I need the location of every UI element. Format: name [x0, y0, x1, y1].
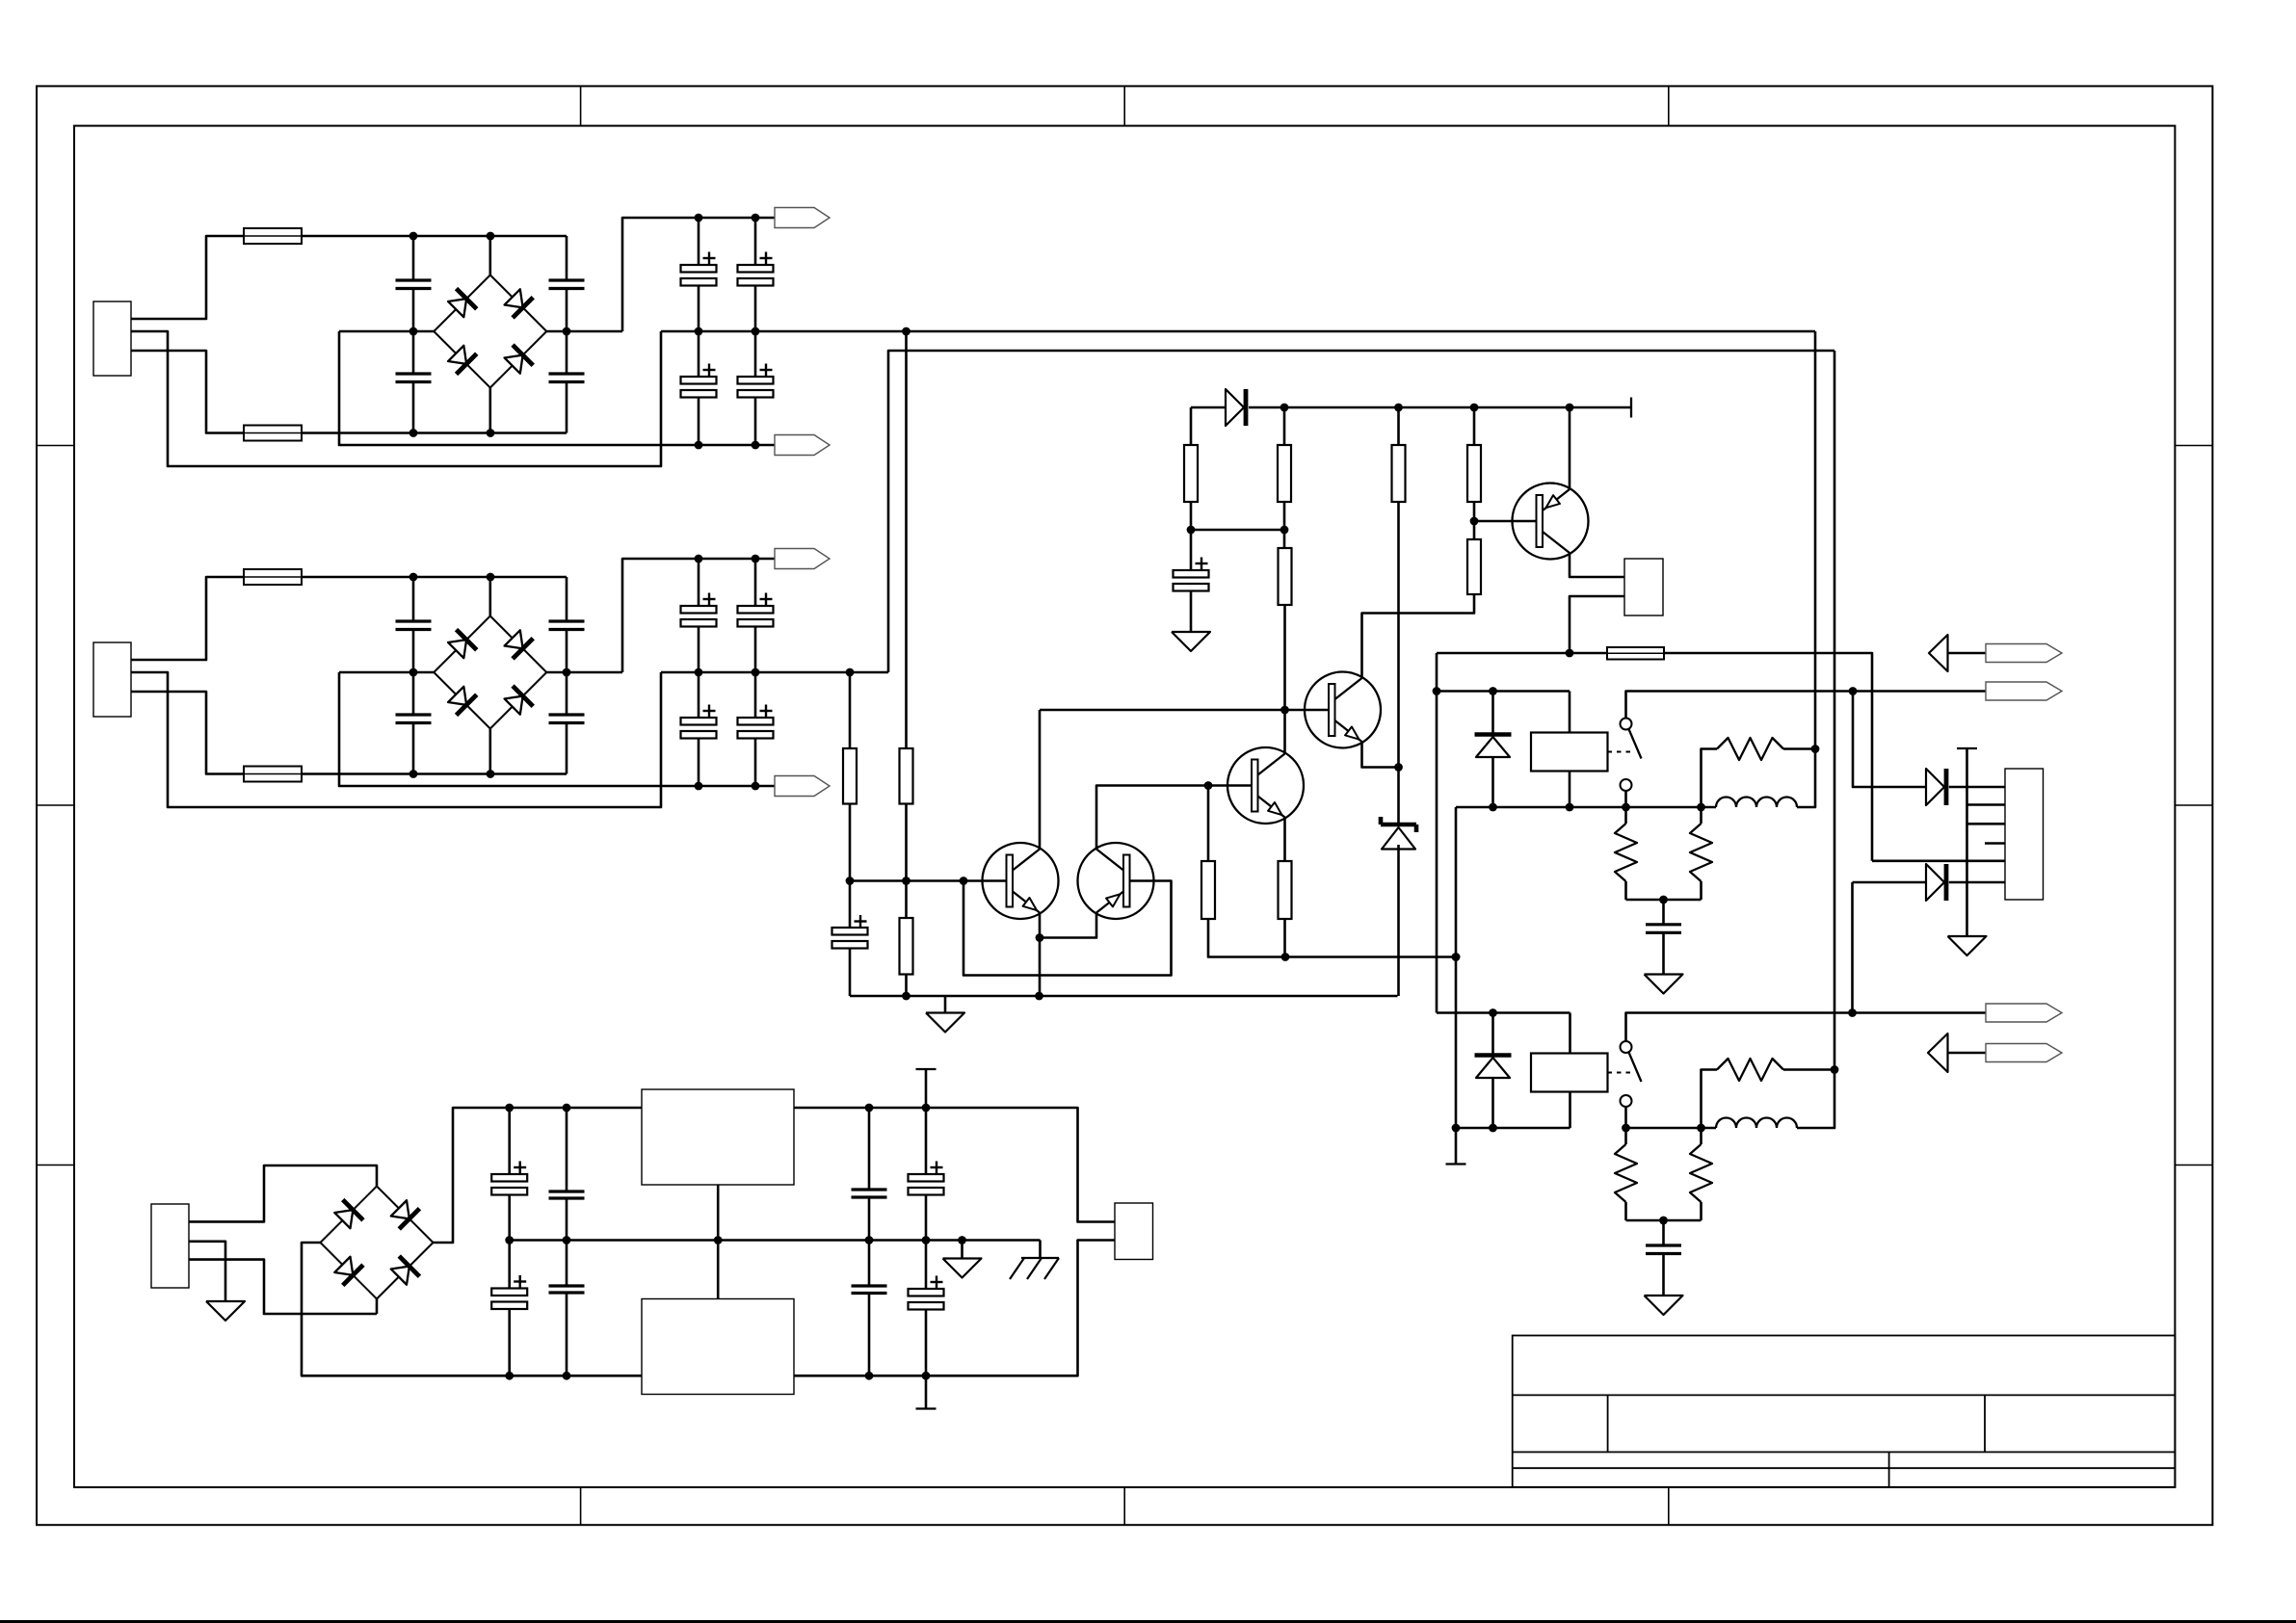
wire: [131, 351, 244, 433]
junction: [1470, 517, 1479, 526]
wire: [1437, 690, 1570, 693]
junction: [487, 232, 495, 241]
fuse F2: [244, 426, 302, 441]
junction: [1566, 649, 1574, 658]
ground symbol: [1645, 1296, 1683, 1315]
junction: [1394, 763, 1403, 772]
supply wire for protection (V rail): [1191, 406, 1226, 409]
ground symbol: [1172, 632, 1210, 651]
wire: [1569, 772, 1571, 808]
net flag V2-: [775, 776, 830, 797]
junction: [1811, 745, 1820, 753]
wire: [1491, 757, 1494, 807]
snubber capacitor C2a: [412, 577, 415, 621]
junction: [409, 668, 418, 677]
junction: [902, 327, 910, 336]
wire: [131, 692, 244, 774]
transistor Q7 (NPN): [1227, 747, 1304, 824]
junction: [865, 1236, 874, 1244]
wire: [1190, 502, 1193, 530]
wire: [1626, 899, 1702, 902]
ground symbol: [944, 996, 947, 1013]
wire: [1473, 502, 1476, 539]
wire: [1569, 1013, 1571, 1054]
junction: [958, 1236, 966, 1244]
wire: [131, 577, 244, 660]
wire: [1626, 1219, 1702, 1222]
junction: [865, 1104, 874, 1113]
arrow flag (hierarchical input) ch1: [1929, 635, 1948, 671]
transistor Q1 (NPN relay driver): [1305, 672, 1381, 748]
output capacitor C16 (electrolytic +): [925, 1241, 928, 1290]
wire -15V out: [794, 1241, 1115, 1376]
fuse F3: [244, 569, 302, 585]
wire: [1283, 502, 1286, 530]
inductor L2: [1716, 1118, 1797, 1129]
wire: [1397, 845, 1400, 996]
junction: [1659, 1217, 1668, 1225]
wire: [546, 330, 622, 333]
junction: [487, 770, 495, 778]
junction: [695, 668, 703, 677]
resistor R3 (sense divider): [843, 748, 857, 804]
wire: [488, 236, 491, 275]
page bottom edge: [0, 1620, 2296, 1623]
snubber capacitor C1b: [412, 331, 415, 374]
junction: [505, 1372, 514, 1380]
zobel resistor R12: [1624, 807, 1627, 824]
junction: [1187, 526, 1196, 535]
resistor R2 (sense divider): [900, 748, 913, 804]
junction: [1204, 781, 1213, 790]
pin stub: [1985, 842, 2005, 845]
resistor R17: [1201, 861, 1215, 919]
wire: [1191, 529, 1284, 532]
connector J5: [1624, 559, 1663, 615]
output diode D8: [1926, 864, 1944, 901]
snubber capacitor C2d: [566, 672, 568, 715]
junction: [1659, 896, 1668, 904]
junction: [752, 441, 760, 450]
filter capacitor (electrolytic) C1h: [754, 331, 757, 377]
capacitor C10: [566, 1108, 568, 1191]
junction: [752, 782, 760, 791]
junction: [1697, 803, 1705, 812]
junction: [563, 668, 571, 677]
diode D5: [1226, 389, 1244, 426]
wire: [189, 1242, 225, 1301]
wire: [1626, 692, 1987, 719]
junction: [752, 327, 760, 336]
wire V- rail: [339, 331, 775, 445]
junction: [922, 1236, 931, 1244]
filter capacitor (electrolytic) C2e: [698, 559, 700, 606]
wire: [488, 577, 491, 616]
zener diode ZD1: [1397, 768, 1400, 825]
wire: [488, 729, 491, 774]
wire: [1283, 818, 1286, 862]
ground symbol: [206, 1301, 245, 1321]
wire stub with end bar: [925, 1375, 928, 1408]
junction: [563, 327, 571, 336]
junction: [1489, 1008, 1497, 1017]
connector J2 (transformer secondary): [93, 642, 131, 717]
junction: [1489, 1124, 1497, 1133]
net flag V2+: [775, 549, 830, 569]
0V mid rail: [510, 1239, 1041, 1242]
wire Q3 base loop: [963, 881, 1172, 976]
junction: [902, 877, 910, 885]
resistor R4: [900, 918, 913, 975]
junction: [1280, 706, 1289, 715]
arrow flag (hierarchical input) ch2: [1928, 1034, 1948, 1072]
junction: [1433, 687, 1441, 695]
smoothing capacitor C9 (electrolytic +): [508, 1108, 511, 1174]
wire: [1362, 742, 1399, 768]
voltage regulator U1 (7815): [642, 1089, 794, 1185]
wire V+ rail: [622, 559, 775, 672]
wire V- rail: [339, 672, 775, 786]
wire: [1208, 919, 1285, 957]
junction: [487, 573, 495, 582]
resistor R9: [1473, 407, 1476, 445]
junction: [1394, 404, 1403, 412]
wire: [131, 236, 244, 319]
relay RL1 contact: [1621, 719, 1632, 730]
wire: [888, 351, 1834, 672]
wire: [1362, 594, 1475, 678]
bridge rectifier BR1: [434, 275, 490, 332]
wire Q1 base bus: [1040, 709, 1331, 712]
wire AC bottom: [302, 772, 567, 775]
junction: [1622, 803, 1630, 812]
junction: [846, 877, 855, 885]
junction: [409, 429, 418, 437]
border zone ticks: [580, 86, 582, 125]
wire to output connector ch1: [1853, 692, 1926, 788]
wire: [1872, 859, 2005, 862]
snubber capacitor C1d: [566, 331, 568, 374]
wire: [1207, 786, 1210, 862]
wire: [849, 672, 852, 748]
resistor R11 (parallel with L1): [1702, 749, 1718, 808]
net flag OUT2: [1986, 1004, 2062, 1022]
chassis ground symbol: [1039, 1241, 1042, 1259]
wire: [1624, 1107, 1627, 1128]
wire: [1474, 520, 1537, 523]
wire: [1967, 803, 2006, 806]
junction: [695, 555, 703, 563]
resistor R7: [1283, 530, 1286, 548]
wire: [1570, 596, 1624, 653]
junction: [752, 668, 760, 677]
wire relay2 feed: [1437, 1011, 1570, 1014]
junction: [505, 1104, 514, 1113]
junction: [1452, 953, 1461, 961]
wire: [1624, 791, 1627, 807]
wire: [302, 1243, 642, 1375]
wire (center tap): [131, 331, 661, 466]
wire: [376, 1299, 379, 1315]
capacitor C12: [566, 1241, 568, 1287]
wire: [1283, 605, 1286, 754]
fuse F4: [244, 767, 302, 782]
junction: [1280, 526, 1289, 535]
wire Q4 emitter: [1569, 407, 1571, 489]
net flag V1+: [775, 208, 830, 228]
wire: [1853, 881, 1927, 884]
wire V+ rail: [622, 218, 775, 331]
junction: [1489, 687, 1497, 695]
output diode D7: [1926, 769, 1944, 805]
wire: [1039, 938, 1042, 997]
junction: [922, 1372, 931, 1380]
junction: [1697, 1124, 1705, 1133]
junction: [487, 429, 495, 437]
net flag OUT1: [1986, 682, 2062, 700]
wire: [1664, 653, 1872, 861]
filter capacitor (electrolytic) C2g: [698, 672, 700, 718]
snubber capacitor C1c: [566, 236, 568, 280]
0V rail of section 2 (to speaker return ch2): [661, 671, 888, 674]
resistor R8: [1397, 407, 1400, 445]
relay supply wire: [1437, 652, 1607, 655]
junction: [695, 441, 703, 450]
flyback diode D9: [1491, 1013, 1494, 1056]
junction: [695, 327, 703, 336]
junction: [1489, 803, 1497, 812]
junction: [1831, 1065, 1839, 1074]
junction: [695, 214, 703, 223]
wire AC top: [302, 235, 567, 238]
relay RL2 coil: [1531, 1054, 1608, 1092]
wire: [1040, 913, 1096, 938]
capacitor C14: [868, 1241, 871, 1287]
filter capacitor (electrolytic) C1g: [698, 331, 700, 377]
junction: [1452, 1124, 1461, 1133]
wire output node ch2: [1626, 1127, 1717, 1130]
wire: [1626, 1013, 1987, 1042]
junction: [1036, 933, 1044, 942]
connector J4: [151, 1204, 189, 1288]
connector J1 (transformer secondary): [93, 301, 131, 376]
junction: [409, 232, 418, 241]
filter capacitor (electrolytic) C1e: [698, 218, 700, 265]
junction: [505, 1236, 514, 1244]
junction: [409, 573, 418, 582]
junction: [1280, 404, 1289, 412]
junction: [409, 327, 418, 336]
junction: [865, 1372, 874, 1380]
wire: [339, 671, 434, 674]
wire: [1039, 710, 1042, 850]
wire AC bottom: [302, 432, 567, 434]
junction: [1622, 1124, 1630, 1133]
net flag V1-: [775, 435, 830, 456]
smoothing capacitor C11 (electrolytic +): [508, 1241, 511, 1289]
wire: [849, 804, 852, 881]
filter capacitor (electrolytic) C2h: [754, 672, 757, 718]
wire: [1949, 881, 2005, 884]
resistor R14 (parallel with L2): [1702, 1070, 1718, 1129]
wire: [339, 330, 434, 333]
wire: [1607, 406, 1631, 409]
wire: [1797, 351, 1834, 1128]
junction: [1470, 404, 1479, 412]
wire base bus: [850, 879, 1007, 882]
relay RL2 contact: [1621, 1041, 1632, 1053]
zobel resistor R16: [1700, 1128, 1702, 1144]
junction: [1848, 1008, 1857, 1017]
snubber capacitor C2b: [412, 672, 415, 715]
junction: [563, 1236, 571, 1244]
ground symbol: [1948, 936, 1987, 955]
zobel capacitor C8: [1662, 1220, 1665, 1245]
wire: [1797, 331, 1815, 807]
filter capacitor (electrolytic) C1f: [754, 218, 757, 265]
wire: [717, 1241, 720, 1299]
wire +15V out: [794, 1108, 1115, 1222]
wire stub with end bar: [1957, 747, 1977, 749]
junction: [1281, 953, 1290, 961]
fuse F1: [244, 228, 302, 244]
junction: [960, 877, 968, 885]
wire: [850, 995, 1398, 998]
output capacitor C15 (electrolytic +): [925, 1108, 928, 1174]
net flag SP2+: [1986, 1044, 2062, 1062]
wire: [1569, 1092, 1571, 1129]
wire: [488, 388, 491, 433]
junction: [752, 214, 760, 223]
wire: [1285, 955, 1456, 958]
resistor R10: [1467, 539, 1481, 594]
junction: [1566, 803, 1574, 812]
wire end stub: [1630, 398, 1632, 418]
flyback diode D6: [1491, 692, 1494, 735]
output connector J7: [1115, 1203, 1153, 1260]
wire Q4 collector: [1570, 553, 1624, 577]
wire: [1491, 1078, 1494, 1128]
wire: [1436, 653, 1438, 1013]
snubber capacitor C2c: [566, 577, 568, 621]
wire: [1949, 786, 2005, 789]
capacitor C13: [868, 1108, 871, 1190]
zobel capacitor C7: [1662, 900, 1665, 925]
junction: [563, 1372, 571, 1380]
filter capacitor (electrolytic) C2f: [754, 559, 757, 606]
resistor R18: [1279, 861, 1292, 919]
junction: [752, 555, 760, 563]
resistor R5: [1190, 407, 1193, 445]
junction: [1566, 404, 1574, 412]
zobel resistor R15: [1624, 1128, 1627, 1144]
junction: [902, 992, 910, 1001]
transistor Q4 (PNP): [1513, 484, 1589, 560]
0V rail of section 1 (to speaker return ch1): [661, 330, 1815, 333]
junction: [1452, 953, 1461, 961]
title block: [1513, 1336, 2176, 1488]
wire end stub: [1446, 1163, 1466, 1165]
wire: [1967, 823, 2006, 825]
junction: [1849, 687, 1858, 695]
junction: [846, 668, 855, 677]
wire: [1456, 1127, 1570, 1130]
wire: [1851, 882, 1854, 1013]
relay RL1 coil: [1531, 733, 1608, 772]
wire: [546, 671, 622, 674]
wire: [1039, 913, 1042, 938]
speaker connector J6: [2005, 769, 2044, 900]
wire: [1397, 502, 1400, 768]
junction: [922, 1104, 931, 1113]
ground symbol: [1645, 975, 1683, 994]
wire (center tap): [131, 672, 661, 807]
wire: [1569, 692, 1571, 733]
zobel resistor R13: [1700, 807, 1702, 824]
ground symbol: [961, 1241, 963, 1259]
wire: [1455, 807, 1458, 1165]
junction: [695, 782, 703, 791]
wire Q3 collector: [1096, 786, 1252, 850]
wire: [434, 1108, 643, 1243]
wire: [189, 1165, 377, 1221]
inductor L1: [1716, 798, 1797, 808]
snubber capacitor C1a: [412, 236, 415, 280]
fuse F5: [1607, 647, 1664, 660]
wire: [1249, 406, 1607, 409]
junction: [563, 1104, 571, 1113]
wire: [717, 1185, 720, 1241]
bridge rectifier BR2: [434, 616, 490, 673]
transistor Q3 (PNP mirrored): [1078, 843, 1154, 919]
transistor Q2 (NPN): [983, 843, 1059, 919]
resistor R6: [1283, 407, 1286, 445]
junction: [714, 1236, 723, 1244]
net flag SP1+: [1986, 644, 2062, 663]
capacitor C6 (electrolytic +): [1190, 530, 1193, 570]
sheet inner border: [74, 126, 2175, 1488]
wire: [905, 975, 908, 997]
wire output node ch1: [1456, 806, 1716, 809]
wire AC top: [302, 576, 567, 579]
junction: [409, 770, 418, 778]
bridge rectifier BR3: [321, 1187, 378, 1243]
voltage regulator U2 (7915): [642, 1299, 794, 1395]
wire: [905, 881, 908, 919]
wire stub with end bar: [916, 1068, 937, 1070]
junction: [1035, 992, 1043, 1001]
wire: [905, 331, 908, 748]
wire: [1283, 919, 1286, 957]
wire: [905, 804, 908, 881]
wire: [189, 1260, 377, 1314]
capacitor C5 (electrolytic +): [849, 881, 852, 929]
